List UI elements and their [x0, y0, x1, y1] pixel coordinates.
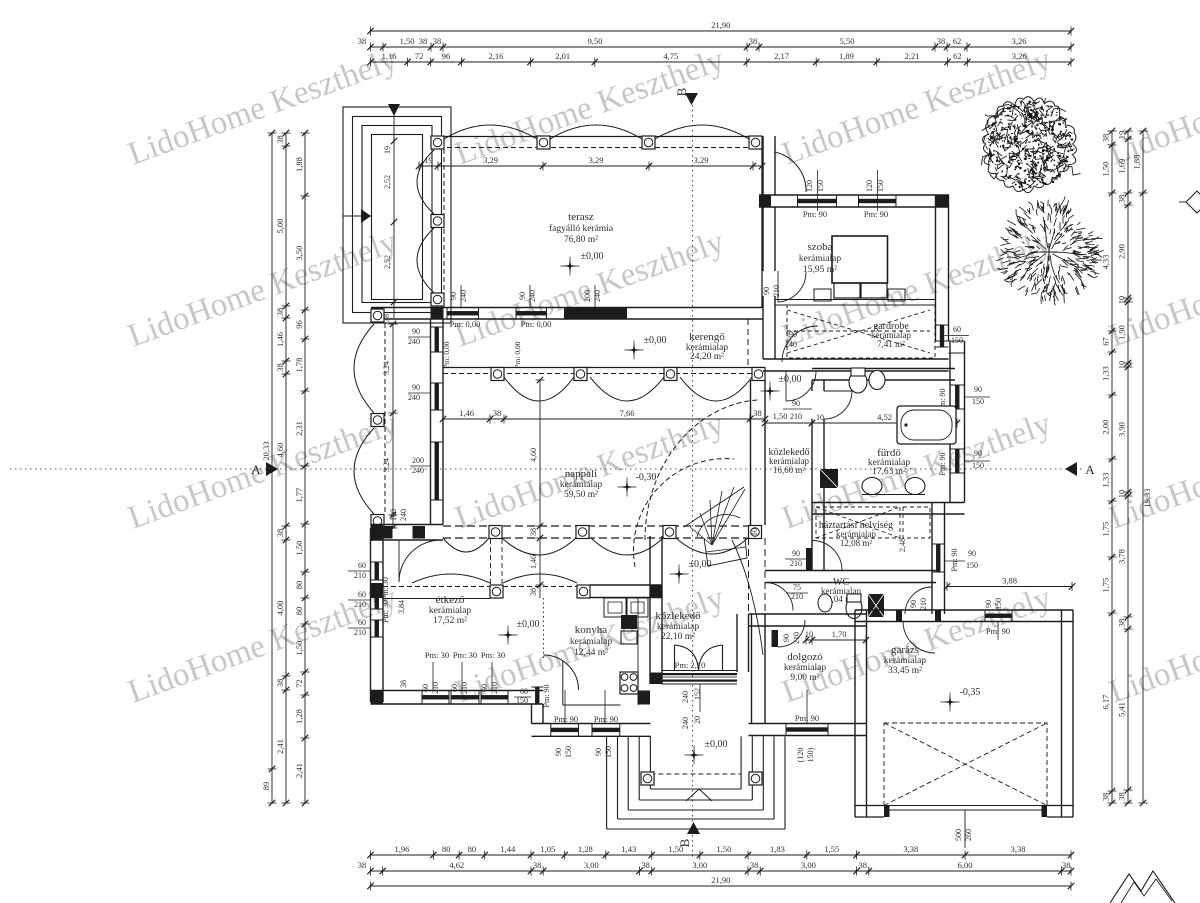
etkezo west window 60/210 c	[375, 620, 379, 637]
section diamond right	[1186, 191, 1200, 213]
svg-text:19,33: 19,33	[1142, 488, 1152, 507]
dimension chain top row 1 (21,90)	[371, 30, 1072, 32]
svg-text:Pm: 0,00: Pm: 0,00	[521, 319, 552, 329]
svg-text:38: 38	[433, 36, 442, 46]
svg-text:72: 72	[294, 679, 304, 688]
svg-text:3,88: 3,88	[1002, 576, 1017, 586]
svg-text:38: 38	[858, 860, 867, 870]
south arches	[503, 574, 577, 583]
svg-text:19: 19	[383, 146, 392, 154]
svg-text:62: 62	[953, 36, 962, 46]
svg-text:(120: (120	[796, 748, 805, 763]
garage door dim	[964, 810, 966, 848]
svg-text:3,38: 3,38	[903, 844, 918, 854]
svg-text:2,00: 2,00	[1101, 420, 1111, 435]
furdo sinks	[862, 478, 882, 495]
section marker B bottom	[687, 822, 700, 834]
svg-text:90: 90	[974, 385, 982, 394]
south colonnade dashed	[383, 586, 577, 588]
svg-text:210: 210	[354, 600, 366, 609]
svg-text:Pm: 30: Pm: 30	[453, 650, 477, 660]
north wall door 200/240	[564, 308, 627, 320]
svg-text:150: 150	[876, 180, 885, 192]
svg-text:Pm: 30: Pm: 30	[481, 650, 505, 660]
svg-text:210: 210	[460, 682, 469, 694]
svg-text:20: 20	[693, 716, 702, 724]
etkezo south windows 60/210 x3	[422, 695, 449, 699]
terrace left arches	[417, 150, 434, 214]
svg-text:terasz: terasz	[568, 211, 594, 223]
szoba window 120/150 b	[859, 199, 897, 203]
garage door opening	[884, 805, 1047, 807]
svg-text:10: 10	[816, 413, 824, 422]
svg-text:38: 38	[1117, 792, 1127, 801]
chimney block	[820, 469, 838, 488]
porch steps S nested	[606, 736, 608, 829]
svg-text:kerámialap: kerámialap	[799, 254, 841, 264]
west column W1	[371, 309, 384, 322]
szoba north wall	[759, 194, 949, 196]
terrace column T2	[537, 136, 550, 149]
haztartasi dashed appliances	[816, 507, 900, 538]
dimension chain left middle	[285, 133, 287, 803]
north wall corner blocks	[372, 308, 384, 319]
WC toilet	[846, 598, 862, 619]
terrace column L2	[431, 215, 444, 228]
section marker A right	[1065, 462, 1077, 476]
bath tub	[897, 406, 956, 444]
terrace level ±0,00	[564, 260, 577, 273]
colonnade column N3	[664, 368, 677, 381]
wall nappali/etkezo transition	[371, 524, 443, 526]
garage north window	[985, 614, 1012, 618]
svg-text:nappali: nappali	[565, 468, 597, 480]
bed	[832, 236, 888, 283]
svg-text:±0,00: ±0,00	[705, 739, 728, 750]
svg-text:kerámialap: kerámialap	[884, 656, 926, 666]
svg-text:72: 72	[415, 51, 424, 61]
svg-text:kerámialap: kerámialap	[429, 606, 471, 616]
svg-text:210: 210	[792, 632, 801, 644]
svg-text:210: 210	[919, 598, 928, 610]
west wall window 90/240 b	[435, 383, 439, 410]
svg-text:38: 38	[1117, 619, 1127, 628]
WC sink	[818, 594, 832, 612]
svg-text:17,63 m²: 17,63 m²	[872, 467, 906, 477]
west column W2	[371, 414, 384, 427]
north wall window 90/240 a	[447, 311, 479, 315]
nappali top dimension	[443, 418, 765, 420]
svg-text:90: 90	[594, 748, 603, 756]
dimension chain top row 3	[371, 61, 1072, 63]
etkezo south wall	[371, 690, 544, 692]
svg-text:150: 150	[966, 561, 978, 570]
svg-text:1,46: 1,46	[275, 332, 285, 347]
terrace column T3	[642, 136, 655, 149]
fridge block	[621, 615, 637, 629]
svg-text:90: 90	[412, 383, 420, 392]
dolgozo door	[772, 630, 779, 647]
svg-text:21,90: 21,90	[711, 20, 730, 30]
colonnade column N2	[574, 368, 587, 381]
svg-text:1,55: 1,55	[824, 844, 839, 854]
svg-text:5,41: 5,41	[1117, 702, 1127, 717]
svg-text:Pm: 30: Pm: 30	[425, 650, 449, 660]
svg-text:240: 240	[408, 393, 420, 402]
svg-text:4,33: 4,33	[1101, 255, 1111, 270]
svg-text:150: 150	[994, 598, 1003, 610]
svg-text:96: 96	[442, 51, 451, 61]
svg-text:1,96: 1,96	[395, 844, 410, 854]
west wall window 200/240	[435, 442, 439, 500]
svg-text:2,41: 2,41	[275, 739, 285, 754]
haztartasi door (to WC area)	[812, 541, 842, 571]
furdo door	[824, 391, 852, 419]
svg-text:38: 38	[641, 860, 650, 870]
WC door	[765, 583, 793, 611]
svg-text:120: 120	[865, 180, 874, 192]
svg-text:60: 60	[421, 684, 430, 692]
terrace top colonnade line	[431, 136, 762, 138]
svg-text:240: 240	[412, 466, 424, 475]
svg-text:6,17: 6,17	[1101, 695, 1111, 710]
svg-text:±0,00: ±0,00	[644, 335, 667, 346]
tree 1 (deciduous scribble)	[983, 97, 1077, 193]
svg-text:1,05: 1,05	[540, 844, 555, 854]
svg-text:90: 90	[762, 287, 771, 295]
svg-text:200: 200	[583, 290, 592, 302]
svg-text:2,31: 2,31	[294, 421, 304, 436]
svg-text:38: 38	[753, 408, 762, 418]
east wall jog	[936, 340, 965, 342]
svg-text:500: 500	[954, 829, 963, 841]
porch level ±0,00	[688, 749, 701, 762]
svg-text:60: 60	[358, 561, 366, 570]
colonnade S column A2	[576, 526, 589, 539]
etkezo level ±0,00	[502, 629, 515, 642]
door haztartasi-garage	[903, 621, 935, 653]
svg-text:1,16: 1,16	[382, 51, 397, 61]
svg-text:3,84: 3,84	[397, 600, 406, 614]
svg-text:3,78: 3,78	[1117, 549, 1127, 564]
kitchen SE corner block	[638, 691, 650, 705]
svg-text:4,62: 4,62	[449, 860, 464, 870]
terrace arches top	[444, 125, 537, 139]
svg-text:2,48: 2,48	[898, 538, 907, 552]
svg-text:±0,00: ±0,00	[517, 619, 540, 630]
szoba west wall upper	[762, 136, 764, 195]
svg-text:konyha: konyha	[575, 624, 608, 636]
svg-text:5,00: 5,00	[275, 219, 285, 234]
kitchen sink top	[604, 598, 626, 617]
furdo west wall	[811, 380, 813, 391]
svg-text:20,33: 20,33	[261, 441, 271, 460]
svg-text:90: 90	[909, 600, 918, 608]
svg-text:1,50: 1,50	[294, 641, 304, 656]
door swing into etkezo	[399, 540, 441, 582]
svg-text:38: 38	[358, 36, 367, 46]
shaft dark	[868, 594, 884, 617]
svg-text:38: 38	[275, 135, 285, 144]
svg-text:240: 240	[681, 691, 690, 703]
west wall of nappali	[430, 319, 432, 525]
svg-text:90: 90	[792, 549, 800, 558]
svg-text:3,29: 3,29	[694, 155, 709, 165]
etkezo west window 60/210 a	[375, 562, 379, 580]
dimension chain top row 2	[371, 46, 1072, 48]
svg-text:2,41: 2,41	[294, 763, 304, 778]
terrace left colonnade dashed	[443, 149, 445, 307]
kitchen east wall / hall west wall	[649, 536, 651, 684]
entry hall east wall	[736, 614, 738, 672]
svg-text:1,43: 1,43	[621, 844, 636, 854]
dolgozo west wall	[751, 614, 753, 724]
svg-text:60: 60	[953, 325, 961, 334]
exterior door swing terrace east	[775, 152, 806, 192]
wall WC-dolgozo/garage	[749, 613, 867, 615]
porch column P2	[749, 772, 762, 785]
stair treads below	[704, 538, 747, 566]
svg-text:4,00: 4,00	[275, 601, 285, 616]
svg-text:3,29: 3,29	[589, 155, 604, 165]
svg-text:90: 90	[792, 399, 800, 408]
svg-text:240: 240	[593, 290, 602, 302]
svg-text:67: 67	[1101, 337, 1111, 346]
svg-text:3,00: 3,00	[801, 860, 816, 870]
etkezo west wall	[370, 528, 372, 702]
svg-text:19: 19	[1117, 131, 1127, 140]
transition door jambs	[381, 526, 393, 539]
svg-text:17,52 m²: 17,52 m²	[433, 616, 467, 626]
svg-text:38: 38	[358, 860, 367, 870]
svg-text:Pm: 90: Pm: 90	[542, 685, 551, 708]
dimension chain left outer (20,33)	[271, 133, 273, 803]
nappali north colonnade line	[443, 367, 765, 369]
step wall etkezo->kitchen	[531, 704, 533, 724]
svg-text:3,24: 3,24	[382, 361, 391, 375]
tree 2 (radial branches)	[996, 196, 1104, 305]
kerengo level ±0,00	[628, 344, 641, 357]
svg-text:150): 150)	[806, 747, 815, 762]
svg-text:7,66: 7,66	[620, 408, 635, 418]
winder stairs	[684, 487, 744, 527]
svg-text:1,44: 1,44	[500, 844, 516, 854]
svg-text:76,80 m²: 76,80 m²	[564, 235, 598, 245]
svg-text:38: 38	[275, 308, 285, 317]
furdo toilet	[849, 371, 867, 393]
svg-text:1,69: 1,69	[1117, 159, 1127, 174]
svg-text:Pm: 0,00: Pm: 0,00	[513, 341, 522, 368]
kozlekedo door at top	[786, 371, 816, 401]
svg-text:3,00: 3,00	[584, 860, 599, 870]
svg-text:1,88: 1,88	[1132, 155, 1142, 170]
svg-text:10: 10	[750, 528, 759, 536]
svg-text:260: 260	[964, 829, 973, 841]
svg-text:Pm: 90: Pm: 90	[938, 453, 947, 476]
svg-text:38: 38	[750, 860, 759, 870]
west column W3	[371, 515, 384, 528]
furdo bidet	[869, 371, 885, 390]
svg-text:38: 38	[399, 680, 408, 688]
svg-text:4,52: 4,52	[877, 412, 892, 422]
haztartasi east window	[936, 544, 940, 572]
svg-text:Pm: 90: Pm: 90	[864, 209, 888, 219]
svg-text:3,29: 3,29	[483, 155, 498, 165]
svg-text:4,60: 4,60	[529, 448, 538, 462]
gardrobe dashed wardrobe	[787, 305, 935, 358]
svg-text:210: 210	[790, 412, 802, 421]
svg-text:1,46: 1,46	[529, 555, 538, 569]
svg-text:Pm: 2,10: Pm: 2,10	[675, 660, 706, 670]
svg-text:10: 10	[1117, 296, 1127, 305]
svg-text:szoba: szoba	[807, 241, 832, 253]
svg-text:80: 80	[294, 581, 304, 590]
svg-text:210: 210	[354, 628, 366, 637]
svg-text:150: 150	[604, 746, 613, 758]
entry door wall with sill	[662, 670, 737, 672]
svg-text:80: 80	[442, 844, 451, 854]
kozlekedo level	[764, 385, 777, 398]
svg-text:16,60 m²: 16,60 m²	[773, 465, 806, 475]
svg-text:240: 240	[681, 717, 690, 729]
svg-text:3,26: 3,26	[1012, 51, 1027, 61]
svg-text:38: 38	[275, 679, 285, 688]
svg-text:10: 10	[1117, 361, 1127, 370]
svg-text:90: 90	[449, 292, 458, 300]
furdo east window b	[955, 449, 959, 473]
svg-text:1,50: 1,50	[668, 844, 683, 854]
svg-text:60: 60	[480, 684, 489, 692]
nappali south colonnade long-dash	[443, 525, 751, 527]
garage outer walls	[854, 610, 856, 817]
svg-text:38: 38	[419, 36, 428, 46]
svg-text:22,10 m²: 22,10 m²	[661, 632, 695, 642]
svg-text:96: 96	[294, 320, 304, 329]
svg-text:240: 240	[528, 290, 537, 302]
nappali vertical dimension 4,60	[539, 380, 541, 598]
svg-text:240: 240	[459, 290, 468, 302]
kitchen/etkezo dotted divider	[543, 598, 545, 660]
kitchen south windows 90/150 x2	[551, 728, 579, 732]
dimension chain bottom row 2	[371, 870, 1072, 872]
hall east dashed boundary	[748, 538, 750, 612]
svg-text:Pm: 90: Pm: 90	[554, 714, 578, 724]
svg-text:1,77: 1,77	[294, 488, 304, 503]
entry hall level ±0,00	[673, 568, 686, 581]
furdo top wall	[812, 368, 955, 370]
svg-text:200: 200	[412, 456, 424, 465]
svg-text:3,50: 3,50	[294, 246, 304, 261]
colonnade S column A3	[663, 526, 676, 539]
porch NW drainage arrow	[343, 215, 371, 217]
svg-text:59,50 m²: 59,50 m²	[564, 490, 598, 500]
svg-text:12,08 m²: 12,08 m²	[840, 538, 873, 548]
svg-text:210: 210	[490, 682, 499, 694]
svg-text:210: 210	[354, 571, 366, 580]
svg-text:38: 38	[529, 528, 538, 536]
svg-text:3,24: 3,24	[382, 458, 391, 472]
nappali level -0,30	[621, 481, 634, 494]
svg-text:1,88: 1,88	[294, 157, 304, 172]
svg-text:1,90: 1,90	[1117, 325, 1127, 340]
svg-text:1,50: 1,50	[400, 36, 415, 46]
svg-text:1,50: 1,50	[717, 844, 732, 854]
svg-text:kerengő: kerengő	[689, 331, 725, 343]
svg-text:1,28: 1,28	[294, 709, 304, 724]
svg-text:-0,35: -0,35	[960, 687, 981, 698]
svg-text:89: 89	[261, 782, 271, 791]
svg-text:38: 38	[529, 588, 538, 596]
garage level -0,35	[944, 696, 957, 709]
south column S1	[490, 585, 503, 598]
terrace top dashed line	[431, 147, 762, 149]
svg-text:152: 152	[693, 688, 702, 700]
west colonnade arches	[354, 324, 374, 413]
svg-text:4,60: 4,60	[275, 443, 285, 458]
svg-text:kerámialap: kerámialap	[784, 663, 826, 673]
svg-text:1,28: 1,28	[578, 844, 593, 854]
dimension chain bottom row 3 (21,90)	[371, 885, 1072, 887]
watermark LidoHome Keszthely grid	[123, 42, 1200, 711]
porch dashed slab	[650, 773, 741, 775]
svg-text:-0,30: -0,30	[636, 472, 657, 483]
nappali north arches	[504, 377, 574, 401]
svg-text:38: 38	[1062, 860, 1071, 870]
szoba window 120/150 a	[798, 199, 837, 203]
svg-text:Pm: 30Pm: 30: Pm: 30Pm: 30	[381, 577, 390, 623]
north wall window 90/240 b	[516, 311, 547, 315]
svg-text:1,33: 1,33	[1101, 473, 1111, 488]
svg-text:1,46: 1,46	[459, 408, 474, 418]
kitchen south wall	[532, 723, 651, 725]
svg-text:±0,00: ±0,00	[581, 251, 604, 262]
svg-text:±0,00: ±0,00	[779, 374, 802, 385]
svg-text:24,20 m²: 24,20 m²	[690, 352, 724, 362]
svg-text:fagyálló kerámia: fagyálló kerámia	[549, 223, 614, 234]
svg-text:38: 38	[1101, 793, 1111, 802]
svg-text:90: 90	[782, 634, 791, 642]
south colonnade arcs (bulge down)	[443, 538, 489, 552]
furdo east window a	[955, 385, 959, 409]
svg-text:90: 90	[412, 327, 420, 336]
entry double door swing	[674, 645, 676, 671]
svg-text:1,75: 1,75	[1101, 522, 1111, 537]
terrace column T1	[431, 136, 444, 149]
nappali east wall	[750, 380, 752, 525]
terrace inner dimension 3,29 x3	[419, 165, 762, 167]
svg-text:150: 150	[972, 461, 984, 470]
colonnade S column A4	[749, 526, 762, 539]
svg-text:90: 90	[518, 292, 527, 300]
garage dashed X rect	[884, 723, 1047, 806]
porch column P1	[641, 772, 654, 785]
wall haztartasi/WC	[765, 570, 936, 572]
svg-text:dolgozó: dolgozó	[787, 651, 823, 663]
haztartasi east wall	[931, 503, 933, 615]
svg-text:38: 38	[749, 36, 758, 46]
szoba east wall	[935, 195, 937, 341]
kitchen top wall	[590, 584, 662, 586]
dimension chain left inner	[304, 133, 306, 803]
zigzag mark bottom right	[1110, 871, 1175, 903]
furdo east wall	[949, 341, 951, 503]
south wall right flank	[749, 723, 867, 725]
svg-text:62: 62	[953, 51, 962, 61]
svg-text:3,26: 3,26	[1012, 36, 1027, 46]
svg-text:60: 60	[520, 687, 528, 696]
furdo dim 4,52	[812, 422, 957, 424]
svg-text:2,90: 2,90	[1117, 244, 1127, 259]
